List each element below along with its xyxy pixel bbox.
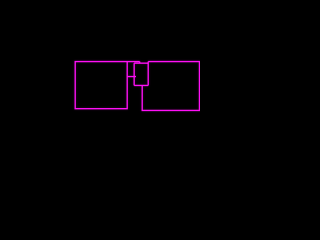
block U3 right rectangle outline (top, right, bottom, lower-left leg)	[142, 62, 199, 111]
wire step connector (top bus down to small block top)	[139, 62, 141, 64]
block U2 small rectangle left edge	[133, 63, 135, 85]
wire stub from U1 right edge crossing into U2	[127, 76, 136, 78]
glow halo for all outlines	[75, 62, 199, 111]
block U1 left rectangle outline with extended top bus	[75, 62, 140, 109]
block U2 small rectangle top edge	[134, 62, 148, 64]
block U2 small rectangle bottom edge	[134, 84, 148, 86]
block U2 small rectangle right edge (rises to top bus)	[147, 62, 149, 86]
